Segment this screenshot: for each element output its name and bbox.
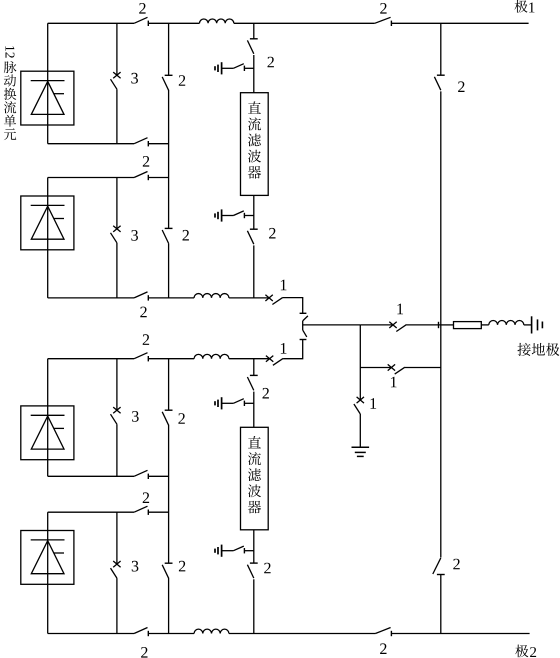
converter unit box U1 xyxy=(21,71,74,125)
wire: filter 1 drop from top bus xyxy=(253,23,255,39)
wire: bypass 4 upper xyxy=(116,512,118,564)
label 2 (lower riser bottom) xyxy=(179,561,185,572)
disconnector 2 (top bus left) xyxy=(134,17,147,23)
DC filter box 2 xyxy=(241,427,269,530)
wire: upper riser from top bus xyxy=(168,23,170,75)
disconnector 2 (filter 1 bottom) xyxy=(250,228,258,230)
disconnector 1 (mid bus 1, x-type) xyxy=(265,295,272,301)
thyristor valve symbol U1 xyxy=(31,80,65,82)
wire: filter 1 switch to box xyxy=(253,55,255,93)
label 2 (filter 2 bottom) xyxy=(264,563,270,574)
wire: tie bus bottom xyxy=(440,575,442,634)
label 2 (between rails 1-2) xyxy=(143,156,149,167)
wire: bypass 2 lower xyxy=(116,243,118,298)
wire: top bus between switch and smoothing reactor xyxy=(148,22,199,24)
bypass disconnector 3 (unit 1) xyxy=(113,72,120,78)
label 1 (mid bus 1) xyxy=(281,280,287,291)
wire: mid bus 1 reactor to x-switch xyxy=(229,297,269,299)
wire: converter 1 bottom rail to parallel riser xyxy=(148,143,168,145)
disconnector 2 (upper riser bottom) xyxy=(165,227,173,229)
wire: bypass 3 lower xyxy=(116,424,118,476)
wire: converter 4 top rail to parallel riser xyxy=(148,511,168,513)
thyristor valve symbol U4 xyxy=(31,539,65,541)
smoothing reactor L3 (mid bus 2) xyxy=(194,354,229,358)
disconnector 1 (neutral, x-type) xyxy=(389,322,396,328)
wire: earth branch vertical upper xyxy=(359,325,361,368)
wire: top bus right segment to pole 1 terminal xyxy=(391,22,528,24)
neutral switch lower (blade+tick) xyxy=(303,330,307,337)
label 2 (upper riser top) xyxy=(179,75,185,86)
neutral switch upper (tick+blade) xyxy=(300,312,307,314)
wire: filter 2 box to lower switch xyxy=(253,530,255,563)
disconnector 2 (filter 1 top) xyxy=(250,38,258,40)
label 1 (earthing switch) xyxy=(371,398,377,409)
label 12-pulse converter unit (vertical) xyxy=(5,46,14,58)
wire: mid bus 1 left segment xyxy=(48,297,134,299)
bypass disconnector 3 (unit 4) xyxy=(113,561,120,567)
wire: converter 2 vertical xyxy=(47,178,49,298)
disconnector 2 (converter 3 bottom rail) xyxy=(134,470,147,476)
wire: earth tee horizontal xyxy=(360,367,391,369)
disconnector 2 (top bus right) xyxy=(375,17,391,23)
label 2 (upper riser bottom) xyxy=(183,230,189,241)
wire: earth tee to tie bus xyxy=(405,367,441,369)
label 2 (mid bus 2) xyxy=(143,334,149,345)
disconnector 2 (converter 2 top rail) xyxy=(134,172,147,178)
label 2 (filter 1 bottom) xyxy=(269,228,275,239)
disconnector 2 (lower riser bottom) xyxy=(165,562,173,564)
bypass disconnector 3 (unit 2) xyxy=(113,226,120,232)
wire: tie bus middle xyxy=(440,91,442,557)
wire: mid bus 2 left segment xyxy=(48,358,134,360)
disconnector 2 (upper riser top) xyxy=(165,74,173,76)
label 2 (between rails 3-4) xyxy=(143,492,149,503)
label 1 (neutral) xyxy=(397,304,403,315)
wire: top bus pole 1 left segment xyxy=(48,22,134,24)
wire: converter 1 vertical xyxy=(47,23,49,143)
wire: upper riser middle xyxy=(168,90,170,229)
earthing switch 1 (x-type) xyxy=(357,397,364,403)
wire: bottom bus reactor to right disconnector xyxy=(229,633,376,635)
wire: bottom bus between switch and reactor xyxy=(148,633,194,635)
label 3 (bypass 4) xyxy=(132,561,139,572)
bypass disconnector 3 (unit 3) xyxy=(113,407,120,413)
label 1 (mid bus 2) xyxy=(281,343,287,354)
wire: converter 2 top rail xyxy=(48,177,134,179)
disconnector 2 (lower riser top) xyxy=(165,409,173,411)
wire: bypass 1 upper xyxy=(116,23,118,75)
label DC filter 1 (ZhiLiuLvBoQi) xyxy=(248,101,261,113)
label 3 (bypass 1) xyxy=(131,73,138,84)
wire: lower riser middle xyxy=(168,425,170,563)
wire: bottom bus right segment to pole 2 terminal xyxy=(391,633,529,635)
smoothing reactor L1 (top bus) xyxy=(200,19,234,23)
wire: mid bus 2 to reactor xyxy=(148,358,194,360)
DC filter box 1 xyxy=(241,93,269,196)
reactor (electrode line) xyxy=(489,321,524,325)
ground (station earth) xyxy=(352,446,370,448)
thyristor valve symbol U2 xyxy=(31,204,65,206)
label 2 (tie bus bottom) xyxy=(453,559,459,570)
label 2 (mid bus 1) xyxy=(140,307,146,318)
wire: reactor to electrode xyxy=(524,324,532,326)
wire: bottom bus left segment xyxy=(48,633,134,635)
wire: bypass 1 lower xyxy=(116,89,118,144)
wire: lower riser from mid bus 2 xyxy=(168,359,170,411)
disconnector 2 (bottom bus left) xyxy=(134,628,147,634)
wire: neutral switch to main tie bus xyxy=(407,324,441,326)
disconnector 1 (earth tee, x-type) xyxy=(388,364,395,370)
wire: converter 1 bottom rail xyxy=(48,143,134,145)
wire: filter 2 to bottom bus xyxy=(253,579,255,633)
wire: lower riser to bottom bus xyxy=(168,578,170,634)
disconnector 2 (tie bus top) xyxy=(437,74,445,76)
wire: tie bus top xyxy=(440,23,442,74)
wire: mid bus 2 jog to node xyxy=(283,340,303,359)
smoothing reactor L2 (mid bus 1) xyxy=(194,294,229,298)
disconnector 2 (bottom bus right) xyxy=(375,628,390,634)
disconnector 2 (mid bus 2) xyxy=(134,353,147,359)
wire: mid bus 1 jog to node xyxy=(283,298,303,314)
wire: converter 3 bottom rail to parallel riser xyxy=(148,475,168,477)
wire: bypass 2 upper xyxy=(116,178,118,229)
wire: earth branch vertical lower xyxy=(359,368,361,401)
wire: converter 4 vertical xyxy=(47,512,49,633)
converter unit box U2 xyxy=(21,196,74,250)
smoothing reactor L4 (bottom bus) xyxy=(194,629,229,633)
wire: converter 3 bottom rail xyxy=(48,475,134,477)
earthing switch (filter 2 upper) xyxy=(221,397,223,409)
earthing switch (filter 1 lower) xyxy=(221,209,223,221)
wire: bypass 3 upper xyxy=(116,359,118,411)
label 3 (bypass 3) xyxy=(132,411,139,422)
wire: converter 3 vertical xyxy=(47,359,49,477)
wire: converter 4 top rail xyxy=(48,511,134,513)
label 2 (tie bus top) xyxy=(458,81,464,92)
label 2 (top bus right) xyxy=(380,3,386,14)
wire: top bus reactor to right disconnector xyxy=(234,22,375,24)
label grounding electrode (JieDiJi) xyxy=(517,343,530,356)
label 2 (lower riser top) xyxy=(178,413,184,424)
wire: tie bus to resistor xyxy=(441,324,454,326)
converter unit box U3 xyxy=(21,406,74,460)
disconnector 2 (filter 2 top) xyxy=(250,374,258,376)
disconnector 2 (converter 1 bottom rail) xyxy=(134,138,147,144)
fixed contact tick (neutral at tie bus) xyxy=(438,322,440,328)
disconnector 1 (mid bus 2, x-type) xyxy=(266,356,273,362)
label 2 (bottom bus left) xyxy=(141,647,147,658)
label DC filter 2 (ZhiLiuLvBoQi) xyxy=(248,436,261,448)
wire: mid bus 1 to reactor xyxy=(148,297,194,299)
wire: resistor to reactor xyxy=(481,324,489,326)
disconnector 2 (tie bus bottom) xyxy=(437,574,445,576)
wire: mid bus 2 reactor to x-switch xyxy=(229,358,270,360)
wire: neutral bus tee to x-switch xyxy=(360,324,393,326)
label 1 (earth tee) xyxy=(391,377,397,388)
wire: node pivot segment xyxy=(302,321,304,330)
earthing switch (filter 2 lower) xyxy=(221,545,223,557)
label 2 (bottom bus right) xyxy=(380,643,386,654)
wire: neutral bus to earth tee xyxy=(303,324,361,326)
label 2 (top bus left) xyxy=(139,3,145,14)
disconnector 2 (mid bus 1) xyxy=(134,292,147,298)
label 2 (filter 2 top) xyxy=(263,388,269,399)
thyristor valve symbol U3 xyxy=(31,414,65,416)
wire: filter 2 drop from mid bus 2 xyxy=(253,359,255,376)
label 3 (bypass 2) xyxy=(131,230,138,241)
wire: filter 1 to mid bus 1 xyxy=(253,245,255,298)
label pole 1 (Ji1) xyxy=(514,0,527,13)
disconnector 2 (filter 2 bottom) xyxy=(250,562,258,564)
resistor (electrode line) xyxy=(454,322,482,329)
wire: earthing switch to ground xyxy=(359,414,361,447)
label 2 (filter 1 top) xyxy=(268,57,274,68)
converter unit box U4 xyxy=(21,531,74,585)
wire: filter 2 switch to box xyxy=(253,392,255,428)
wire: converter 2 top rail to parallel riser xyxy=(148,177,168,179)
label pole 2 (Ji2) xyxy=(515,645,528,658)
wire: upper riser to mid bus 1 xyxy=(168,243,170,298)
grounding electrode symbol xyxy=(531,316,533,333)
earthing switch (filter 1 upper) xyxy=(221,62,223,74)
wire: filter 1 box to lower switch xyxy=(253,195,255,229)
disconnector 2 (converter 4 top rail) xyxy=(134,506,147,512)
wire: bypass 4 lower xyxy=(116,578,118,633)
